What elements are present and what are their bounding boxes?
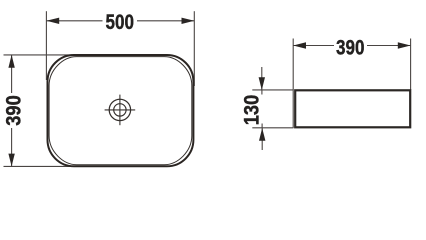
svg-text:500: 500 <box>106 11 135 34</box>
svg-text:390: 390 <box>3 95 26 126</box>
svg-text:130: 130 <box>240 95 263 126</box>
svg-text:390: 390 <box>336 36 365 59</box>
